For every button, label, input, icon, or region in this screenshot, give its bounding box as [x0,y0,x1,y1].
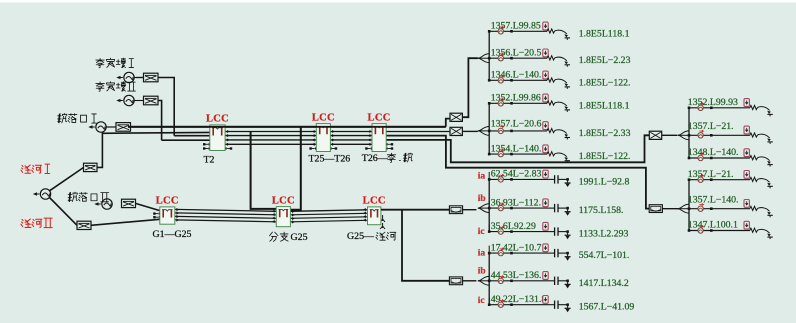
wire main bus top overlay [128,126,446,128]
splitter fan-out [478,204,489,213]
svg-text:LCC: LCC [272,195,295,206]
impedance box 舵落口 II [122,199,136,207]
svg-text:1567.L−41.09: 1567.L−41.09 [579,302,635,313]
branch row 1357.L&#8722;21. [688,169,773,188]
wire top bus corner up [446,119,450,127]
svg-text:ic: ic [478,296,485,306]
branch row 1352.L99.86 [488,93,630,112]
branch row 17.42L&#8722;10.7 [478,242,630,261]
impedance box 舵落口 I [116,123,131,132]
label 泾河 I [21,164,50,173]
label 泾河 II [21,218,52,228]
LCC converter G1—G25 [160,207,175,224]
branch row 1346.L&#8722;140. [488,70,631,89]
wire 李家墩I to bus [134,78,174,136]
LCC converter 分支G25 [276,207,290,227]
label G25—泾河 [347,231,396,242]
bus vertical [488,253,490,305]
svg-text:T26—: T26— [362,153,388,164]
svg-text:G25—: G25— [347,231,374,242]
svg-text:ia: ia [478,249,486,259]
bus vertical [488,103,490,154]
svg-text:44.53L−136.: 44.53L−136. [491,270,542,281]
label 李家墩 II [96,82,136,92]
measure box group A [449,206,462,214]
splitter fan-out [478,127,489,136]
svg-text:1357.L−20.6: 1357.L−20.6 [491,119,542,130]
svg-text:1133.L2.293: 1133.L2.293 [579,229,629,240]
AC source 泾河 [33,189,51,199]
label T26—李.舵 [362,153,413,164]
svg-text:1.8E5L−122.: 1.8E5L−122. [579,151,631,162]
svg-text:1417.L134.2: 1417.L134.2 [579,278,629,289]
stub arrows T25 left [309,147,317,150]
wire node 舵落口I [106,126,116,128]
branch row 49.22L&#8722;131.8 [478,294,635,313]
svg-text:ia: ia [478,172,486,182]
wire boxB to splitter [463,280,477,282]
svg-text:T2: T2 [204,155,215,166]
svg-text:LCC: LCC [206,114,229,125]
wire 泾河I riser [97,132,210,167]
wires 分支G25 to G25-泾河 [290,208,367,223]
transformer box far-right upper [649,131,661,139]
LCC converter G25—泾河 [368,207,381,225]
stub arrows T26 right [385,143,393,150]
svg-text:1354.L−140.: 1354.L−140. [491,143,542,154]
label LCC of T25—T26 [312,112,335,123]
svg-text:1346.L−140.: 1346.L−140. [491,70,542,81]
branch row 1356.L&#8722;20.5 [488,47,631,66]
svg-text:ic: ic [478,227,485,237]
wires T2 to T25-T26 [225,130,316,146]
label T25—T26 [309,154,351,165]
svg-text:1991.L−92.8: 1991.L−92.8 [579,176,630,187]
bus vertical [488,179,490,231]
wire 李家墩II to bus [134,101,161,141]
svg-text:ib: ib [478,194,486,204]
svg-text:554.7L−101.: 554.7L−101. [579,250,630,261]
svg-text:1.8E5L−2.33: 1.8E5L−2.33 [579,128,631,139]
svg-text:1348.L−140.: 1348.L−140. [688,147,739,158]
branch row 1347.L100.1 [688,220,773,239]
svg-text:35.6L92.29: 35.6L92.29 [491,221,536,232]
impedance box 泾河 I [84,163,98,171]
label 分支G25 [270,232,308,243]
wire 泾河 to lower box [50,198,78,226]
svg-text:62.54L−2.83: 62.54L−2.83 [491,169,542,180]
branch row 1357.L&#8722;21. [688,121,773,144]
branch row 1357.L99.85 [488,21,630,40]
svg-text:1352.L99.93: 1352.L99.93 [688,97,738,108]
svg-text:1357.L−21.: 1357.L−21. [688,121,734,132]
label 李家墩 I [96,58,134,68]
svg-text:1.8E5L−2.23: 1.8E5L−2.23 [579,55,631,66]
branch row 1357.L&#8722;20.6 [488,119,631,140]
LCC converter T2 [210,125,225,151]
label LCC of 分支G25 [272,195,295,206]
wire 李家墩II into T2 [162,139,210,141]
converter transformer box lower [450,127,462,135]
svg-text:1357.L−140.: 1357.L−140. [688,195,739,206]
wire 李家墩I into T2 [174,135,210,137]
measure box group B [449,277,462,285]
impedance box 泾河 II [77,221,91,229]
svg-text:LCC: LCC [156,196,179,207]
wire riser to 分支G25 left [251,132,277,209]
branch row 1357.L&#8722;140. [688,195,773,218]
wire 泾河 to upper box [50,168,84,191]
impedance box 李家墩 II [144,96,159,105]
AC source 李家墩 I [116,72,134,82]
wire 舵落口II to G1-G25 [136,203,160,210]
splitter fan-out [678,131,689,140]
svg-text:LCC: LCC [312,112,335,123]
stub arrows T25 right [329,147,337,150]
AC source 舵落口 II [94,199,112,209]
svg-text:36.93L−112.: 36.93L−112. [491,197,541,208]
svg-text:1347.L100.1: 1347.L100.1 [688,220,738,231]
label LCC of G25—泾河 [363,196,386,207]
svg-text:1.8E5L−122.: 1.8E5L−122. [579,77,631,88]
wire L4 T26 inner corner [386,135,649,162]
label LCC of T2 [206,114,229,125]
svg-text:ib: ib [478,267,486,277]
svg-text:LCC: LCC [363,196,386,207]
label G1—G25 [153,229,192,240]
label 舵落口 II [68,192,109,202]
LCC converter T25—T26 [316,124,330,152]
impedance box 李家墩 I [144,73,159,82]
stub arrows T26 left [365,147,373,150]
stub arrows G25-泾河 below [380,215,385,229]
converter transformer box upper [450,113,462,121]
wire xbox3 to splitter [662,134,678,136]
AC source 李家墩 II [116,95,134,105]
branch row 1348.L&#8722;140. [688,147,773,166]
stub arrows T2 left [203,143,211,150]
svg-text:1352.L99.86: 1352.L99.86 [491,93,541,104]
label LCC of G1—G25 [156,196,179,207]
LCC converter T26—李.舵 [372,124,386,152]
wire branch down to group B [402,210,449,281]
wire G25-泾河 to group A [381,209,450,211]
wire 泾河II to G1-G25 [91,219,160,225]
splitter fan-out [678,204,689,213]
label 舵落口 I [58,114,97,124]
svg-text:1.8E5L118.1: 1.8E5L118.1 [579,28,630,39]
bus vertical [688,180,690,231]
branch row 62.54L&#8722;2.83 [478,169,630,188]
bus vertical [688,108,690,158]
stub arrows T2 right [224,147,232,150]
svg-text:1175.L158.: 1175.L158. [579,205,624,216]
svg-text:1357.L−21.: 1357.L−21. [688,169,734,180]
wire L3 T26 corner down [386,136,649,209]
branch row 44.53L&#8722;136. [478,267,629,289]
wire boxA to splitter [463,209,477,211]
wires G1-G25 to 分支G25 [175,208,276,223]
splitter fan-out [478,54,489,63]
svg-text:1356.L−20.5: 1356.L−20.5 [491,47,542,58]
svg-text:1.8E5L118.1: 1.8E5L118.1 [579,100,630,111]
svg-text:G25: G25 [291,232,308,243]
branch row 35.6L92.29 [478,221,629,240]
svg-text:17.42L−10.7: 17.42L−10.7 [491,242,542,253]
svg-text:G1—G25: G1—G25 [153,229,192,240]
wire main bus top [128,126,446,128]
wire riser to 分支G25 right [290,127,300,210]
label LCC of T26—李.舵 [368,112,391,123]
stub arrows G1-G25 left [153,212,161,218]
svg-text:49.22L−131.8: 49.22L−131.8 [491,294,547,305]
svg-text:T25—T26: T25—T26 [309,154,351,165]
wires T25-T26 to T26 [330,130,372,146]
wire L2 T26 to xbox2 [386,131,450,133]
wire dbox4 to splitter [662,208,678,210]
AC source 舵落口 I [88,122,106,132]
wire xbox2 to splitter2 [462,130,478,132]
branch row 36.93L&#8722;112. [478,194,624,216]
label T2 [204,155,215,166]
wire xbox1 riser to group1 [462,58,478,117]
svg-text:LCC: LCC [368,112,391,123]
bus vertical [488,31,490,80]
svg-text:1357.L99.85: 1357.L99.85 [491,21,541,32]
branch row 1354.L&#8722;140. [488,143,631,162]
branch row 1352.L99.93 [688,97,773,116]
splitter fan-out [478,276,489,285]
measure box far-right lower [649,205,662,213]
